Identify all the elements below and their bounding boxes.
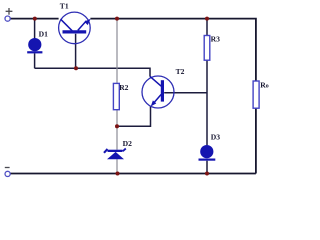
svg-text:T1: T1 [60,2,69,11]
svg-text:R2: R2 [119,83,128,92]
svg-text:D3: D3 [211,132,220,141]
svg-text:D2: D2 [123,139,132,148]
svg-text:R3: R3 [211,34,220,43]
svg-text:T2: T2 [176,67,185,76]
svg-text:D1: D1 [39,29,48,38]
svg-text:Ro: Ro [260,80,269,89]
